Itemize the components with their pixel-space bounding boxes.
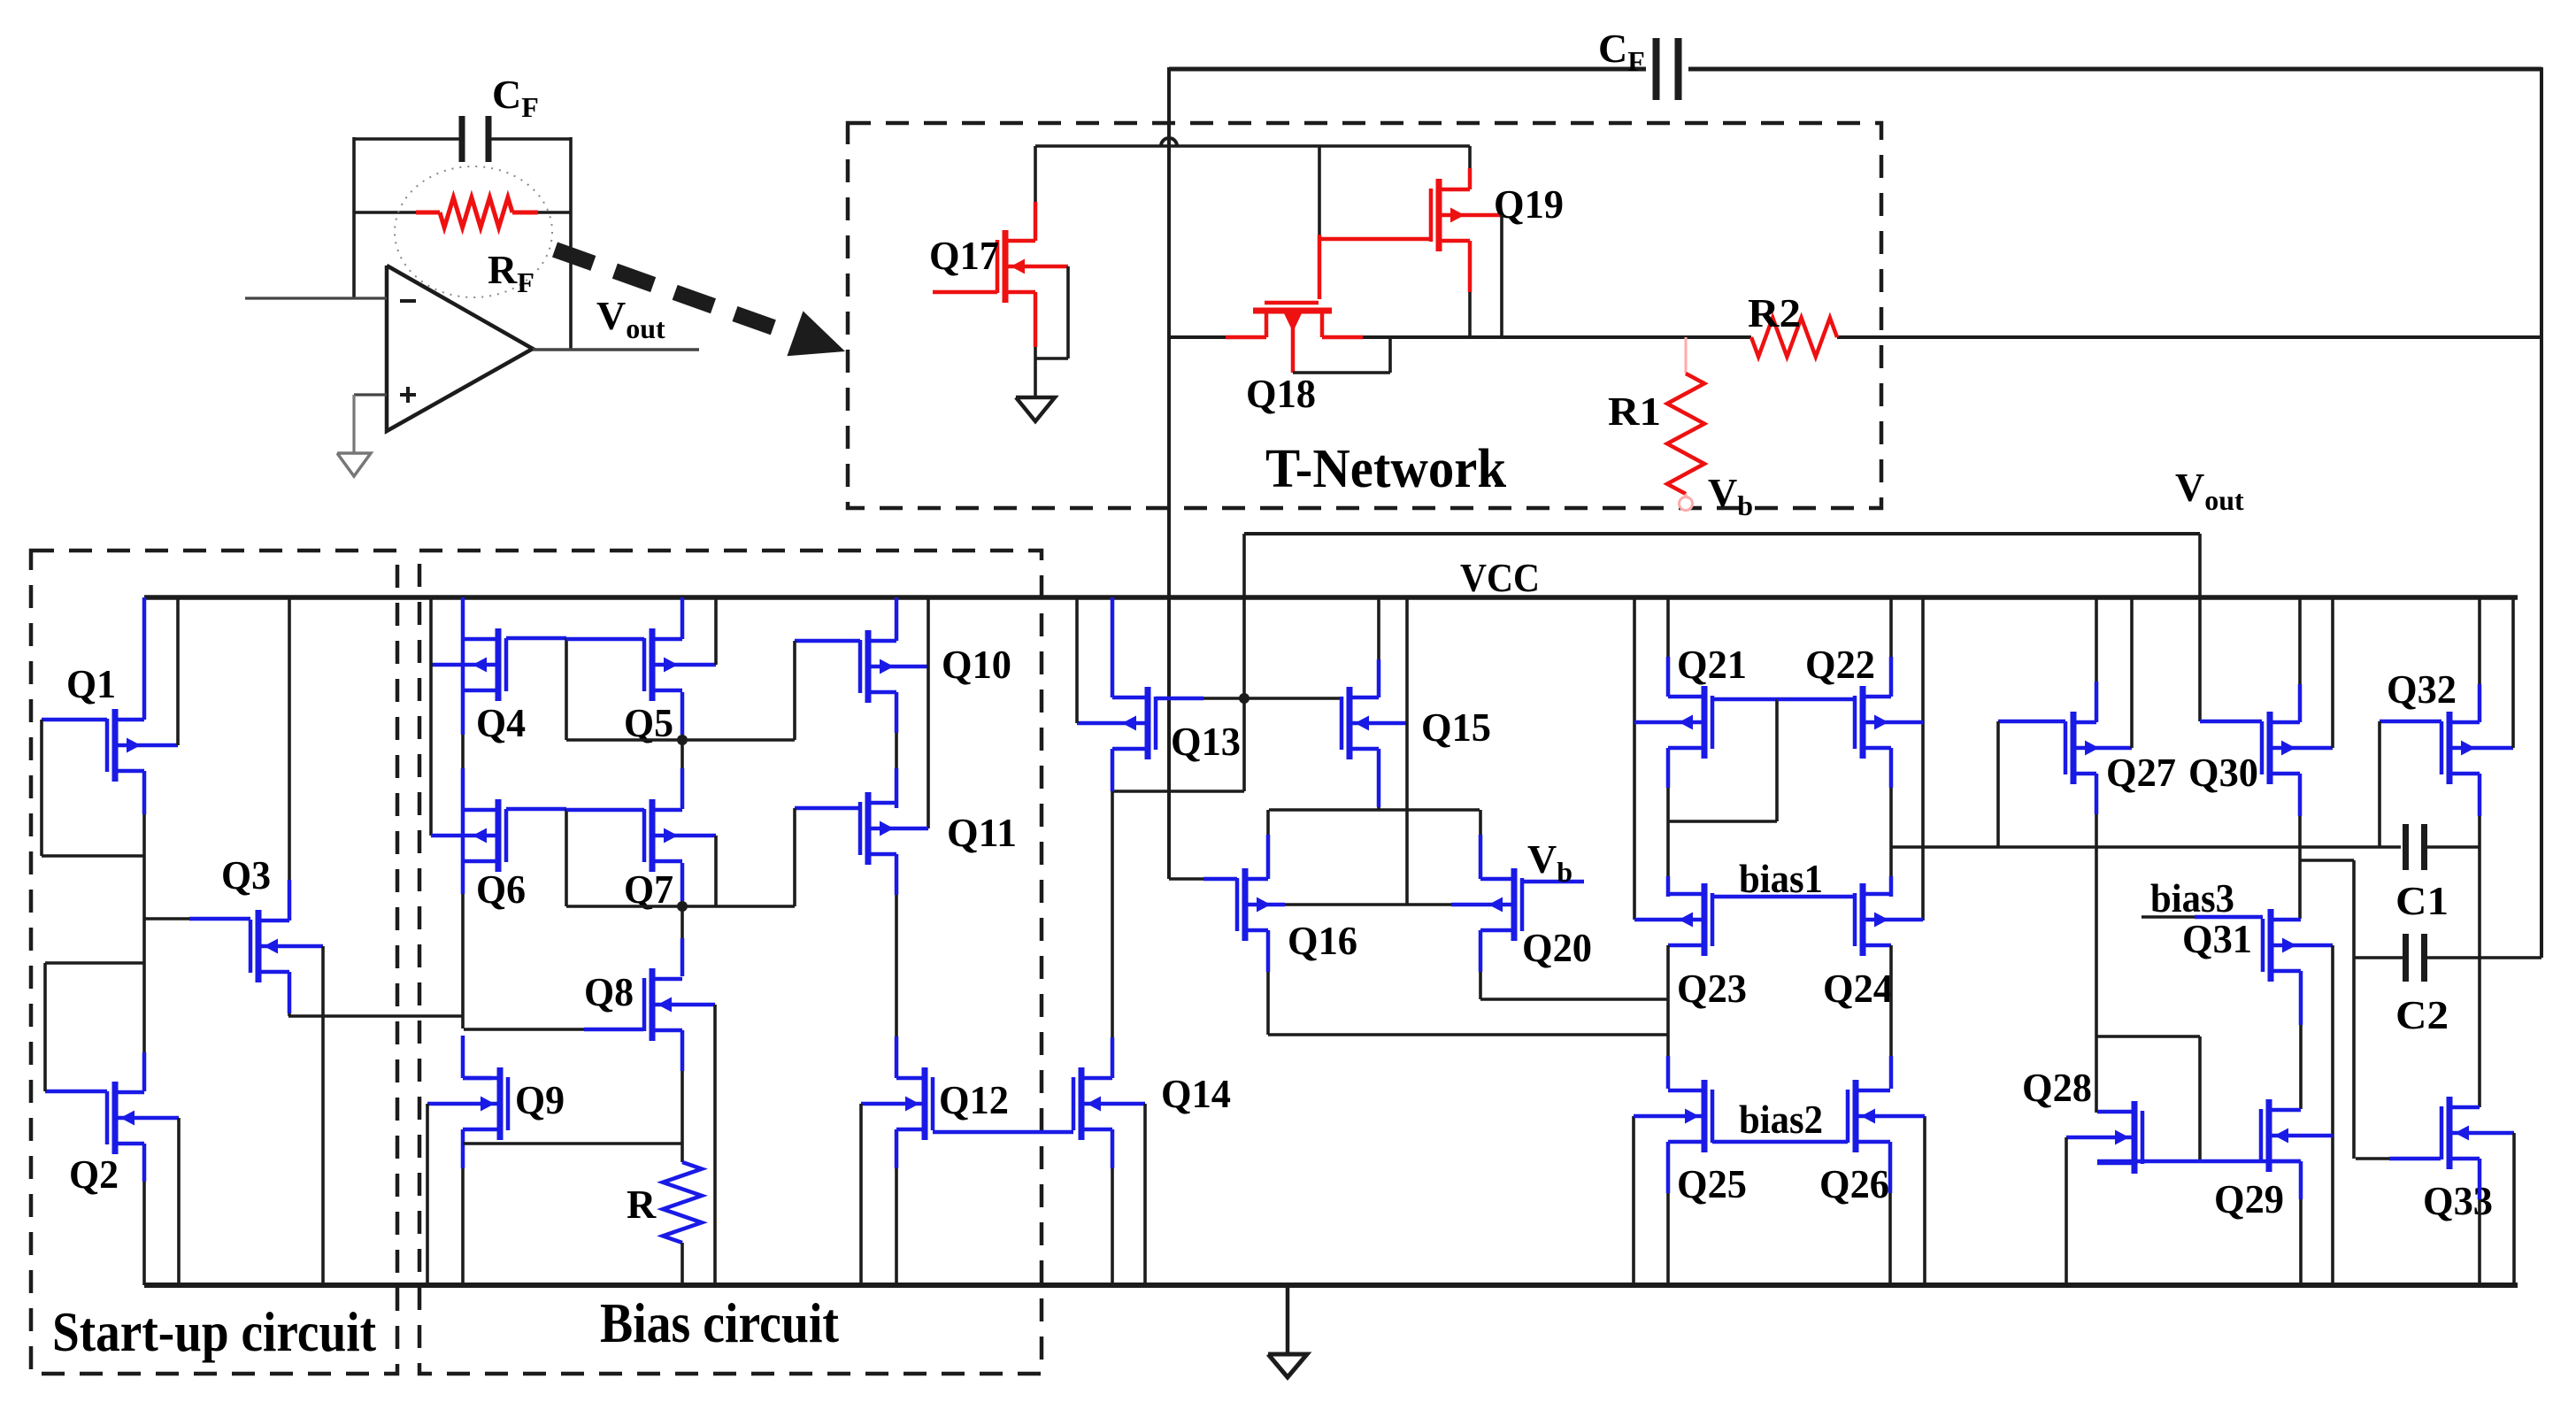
label Q10	[942, 642, 1011, 687]
wire Q9 bulk down	[426, 1104, 429, 1285]
wire C2 right lead	[2425, 956, 2541, 959]
wire Q2 source down	[142, 1144, 147, 1285]
transistor Q23	[1634, 883, 1712, 956]
transistor Q17	[997, 230, 1068, 303]
svg-text:R1: R1	[1608, 389, 1661, 434]
wire Q30 gate lead	[2200, 720, 2262, 724]
label Q20	[1522, 925, 1592, 970]
label Q25	[1677, 1161, 1747, 1206]
node dot row1	[677, 735, 688, 745]
wire Q32 drain up	[2478, 597, 2482, 722]
wire right bulk post upper	[1921, 597, 1925, 921]
wire Q21 drain up	[1666, 597, 1671, 697]
wire Q21Q22 gate post	[1668, 699, 1777, 821]
wire Q21 gate lead	[1712, 697, 1777, 702]
wire gate row1	[566, 738, 795, 742]
wire op-amp output Vout	[533, 348, 699, 350]
label Q18	[1246, 371, 1316, 416]
svg-text:Q8: Q8	[584, 969, 634, 1014]
svg-text:Q25: Q25	[1677, 1161, 1747, 1206]
label Q23	[1677, 966, 1747, 1011]
svg-text:Q4: Q4	[476, 700, 526, 745]
transistor Q21	[1634, 686, 1712, 759]
resistor R2	[1751, 318, 1837, 357]
label Q29	[2214, 1176, 2284, 1221]
wire Q31 source down	[2299, 971, 2303, 1109]
wire Q17 drain up	[1034, 146, 1038, 241]
wire Q8 source down	[681, 1030, 685, 1162]
wire Q20 source down	[1479, 930, 1483, 999]
label Q19	[1494, 181, 1564, 227]
label Q4	[476, 700, 526, 745]
label Q1	[66, 661, 116, 706]
resistor R	[663, 1162, 702, 1243]
terminal Vb (R1)	[1680, 497, 1693, 511]
transistor Q24	[1855, 883, 1923, 956]
transistor Q25	[1634, 1080, 1712, 1152]
wire Q16 tail	[1268, 1033, 1667, 1036]
wire Q7 gate lead	[566, 808, 644, 813]
transistor Q15	[1342, 687, 1407, 759]
wire VCC rail	[144, 595, 2518, 600]
transistor Q30	[2262, 712, 2333, 784]
transistor Q3	[250, 910, 323, 982]
svg-text:Q20: Q20	[1522, 925, 1592, 970]
wire Q4 gate lead	[506, 636, 566, 641]
wire Q10 gate lead	[795, 639, 860, 643]
label C1	[2395, 878, 2449, 923]
wire Q21 source chain	[1666, 748, 1671, 897]
wire Q12 bulk down	[859, 1104, 863, 1285]
label Q11	[947, 810, 1017, 855]
wire Q27 bulk up	[2130, 597, 2134, 748]
svg-text:Q9: Q9	[515, 1077, 565, 1122]
label Q22	[1805, 642, 1875, 687]
label VCC	[1460, 555, 1540, 600]
label Q9	[515, 1077, 565, 1122]
label Q5	[624, 700, 673, 745]
transistor Q1	[107, 709, 178, 782]
svg-text:Q10: Q10	[942, 642, 1011, 687]
transistor Q13	[1077, 687, 1156, 759]
wire Q10 source chain	[895, 692, 899, 808]
wire Q1 drain to VCC	[142, 597, 147, 720]
svg-text:C1: C1	[2395, 878, 2449, 923]
wire Q32 gate post	[2378, 721, 2381, 847]
resistor RF (red, circled)	[354, 197, 571, 227]
label R	[627, 1182, 657, 1227]
label RF	[488, 247, 534, 298]
op-amp plus sign	[400, 387, 416, 403]
capacitor C1	[2406, 824, 2425, 870]
transistor Q20	[1451, 868, 1522, 941]
wire Q27 drain up	[2095, 597, 2099, 722]
wire T-net out rail	[1837, 335, 2541, 339]
wire Q8 bulk down	[713, 1005, 717, 1285]
svg-text:Q1: Q1	[66, 661, 116, 706]
wire non-inverting input	[354, 393, 387, 396]
svg-text:bias2: bias2	[1739, 1098, 1823, 1142]
label Q32	[2387, 666, 2457, 712]
transistor Q6	[431, 799, 506, 872]
wire ground stub	[1286, 1288, 1290, 1354]
wire Q30 source column	[2298, 774, 2303, 919]
transistor Q7	[644, 799, 716, 872]
svg-text:Q12: Q12	[939, 1077, 1009, 1122]
wire C2 left lead	[2354, 956, 2405, 959]
svg-text:Q2: Q2	[69, 1152, 119, 1197]
label CF	[492, 72, 539, 123]
wire top feedback (left segment)	[1169, 67, 1646, 72]
label T-Network	[1265, 439, 1506, 499]
capacitor CF (op-amp feedback)	[462, 116, 488, 162]
transistor Q26	[1848, 1080, 1925, 1152]
wire Q30 drain up	[2298, 597, 2303, 722]
transistor Q27	[2065, 712, 2132, 784]
wire Q19 gate lead	[1319, 237, 1430, 242]
svg-text:Q24: Q24	[1823, 966, 1893, 1011]
wire shared bulk line	[1285, 903, 1451, 906]
svg-text:Bias circuit: Bias circuit	[600, 1291, 840, 1354]
svg-text:Q27: Q27	[2106, 750, 2176, 795]
svg-text:R: R	[627, 1182, 657, 1227]
wire Q28 source link	[2097, 1159, 2300, 1164]
wire Q23 source chain	[1666, 945, 1670, 1089]
wire Q9 source to R	[463, 1142, 682, 1145]
wire Q17 top link	[1035, 144, 1470, 148]
wire top feedback (right segment)	[1688, 67, 2541, 72]
transistor Q10	[860, 630, 928, 703]
capacitor C2	[2406, 934, 2425, 982]
svg-text:Q3: Q3	[221, 852, 271, 897]
wire Q9 source down	[461, 1129, 465, 1285]
label bias3	[2150, 876, 2234, 921]
wire Q1 bulk tie up	[176, 597, 180, 745]
wire C1 right lead	[2425, 845, 2480, 849]
wire Q8 gate lead	[464, 1028, 643, 1031]
wire bias1 gate link	[1712, 895, 1855, 899]
wire Vb to Q13 source col	[1112, 790, 1244, 793]
label Q7	[624, 867, 673, 912]
label Q3	[221, 852, 271, 897]
label Q6	[476, 867, 526, 912]
wire Q11 gate lead	[795, 806, 860, 811]
wire bias3 lead	[2142, 915, 2263, 919]
label Start-up circuit	[52, 1300, 377, 1363]
svg-text:Q30: Q30	[2188, 750, 2258, 795]
op-amp minus sign	[400, 299, 416, 303]
label Q16	[1288, 918, 1357, 963]
wire Q4/Q6 bulk tie	[429, 597, 433, 836]
wire Q26 source down	[1888, 1142, 1893, 1285]
wire Q18 gate vertical	[1318, 147, 1321, 299]
svg-text:Q28: Q28	[2022, 1065, 2092, 1110]
wire Q20 tail	[1480, 998, 1667, 1001]
label Vout (right)	[2175, 465, 2244, 516]
label Q15	[1421, 705, 1491, 750]
transistor Q12	[861, 1067, 933, 1140]
svg-text:R2: R2	[1748, 290, 1801, 335]
dashed arrow to T-Network	[555, 250, 845, 356]
wire Q3 gate link	[144, 917, 250, 921]
wire Q16 gate lead	[1169, 877, 1237, 881]
label Q26	[1819, 1161, 1889, 1206]
wire Q7 bulk down	[714, 836, 718, 906]
label Q27	[2106, 750, 2176, 795]
wire Q30 bulk up	[2331, 597, 2334, 748]
label Q21	[1677, 642, 1747, 687]
svg-text:Q6: Q6	[476, 867, 526, 912]
wire Q16 drain up	[1266, 810, 1271, 879]
wire Q13 drain up	[1111, 597, 1115, 697]
wire feedback box left	[352, 137, 356, 298]
wire Q27 gate lead	[1998, 720, 2065, 724]
wire Q11 gate post	[793, 808, 796, 906]
transistor Q32	[2441, 712, 2513, 784]
label Vout (op-amp)	[596, 293, 665, 344]
wire Q15 drain up	[1377, 597, 1381, 697]
wire Q1 gate loop	[42, 720, 144, 856]
svg-text:Q22: Q22	[1805, 642, 1875, 687]
wire Q3 drain up	[288, 597, 292, 921]
T-Network dashed box	[848, 123, 1881, 508]
wire Q27 source column	[2095, 774, 2099, 1113]
node dot row2	[677, 901, 688, 912]
wire Q15 source down	[1377, 749, 1381, 810]
wire Q5 drain up	[681, 597, 685, 639]
wire Q31 bulk down	[2331, 945, 2334, 1285]
svg-text:Q18: Q18	[1246, 371, 1316, 416]
wire Q32 bulk up	[2511, 597, 2515, 748]
wire Q6 gate lead	[506, 807, 566, 812]
wire Vb bias line	[1244, 532, 2200, 535]
wire feedback box top	[354, 137, 571, 141]
label Q30	[2188, 750, 2258, 795]
wire inverting input	[245, 297, 387, 299]
wire R bottom	[681, 1243, 684, 1285]
wire Q11 source chain	[895, 854, 899, 1078]
label Q8	[584, 969, 634, 1014]
svg-text:VCC: VCC	[1460, 555, 1540, 600]
label bias2	[1739, 1098, 1823, 1142]
wire Vb down to Q30 gate	[2198, 534, 2202, 721]
wire Q10 drain up	[895, 597, 899, 641]
wire bias2 gate link	[1712, 1140, 1848, 1144]
wire Q13 source chain	[1111, 749, 1115, 1078]
label Q24	[1823, 966, 1893, 1011]
wire Q25 source down	[1666, 1142, 1671, 1285]
label bias1	[1739, 857, 1823, 901]
op-amp U1	[387, 266, 533, 431]
wire Q28 drain branch	[2096, 1036, 2200, 1161]
wire Q32 gate lead	[2380, 720, 2441, 724]
wire left bulk post upper	[1633, 597, 1636, 920]
wire ground rail	[144, 1283, 2518, 1288]
wire Q28 bulk down	[2065, 1137, 2068, 1285]
resistor R1	[1667, 337, 1704, 497]
wire Q19 drain up	[1468, 146, 1473, 189]
wire Q9 gate-drain lead	[463, 1076, 492, 1081]
wire cascode node line	[1891, 845, 2401, 849]
transistor Q11	[860, 792, 928, 865]
transistor Q16	[1237, 868, 1285, 941]
transistor Q5	[644, 628, 716, 701]
wire Q2 bulk down	[177, 1118, 181, 1285]
svg-text:Q29: Q29	[2214, 1176, 2284, 1221]
label Q13	[1171, 719, 1241, 764]
label Q2	[69, 1152, 119, 1197]
transistor Q28	[2066, 1101, 2142, 1174]
wire Q33 source down	[2478, 1159, 2482, 1285]
svg-text:C2: C2	[2395, 992, 2449, 1037]
transistor Q18 (rotated)	[1253, 303, 1332, 373]
wire Q20 gate lead Vb	[1522, 880, 1584, 884]
wire C2 branch step	[2300, 860, 2354, 1159]
wire Q10 gate post	[793, 641, 796, 740]
wire right bulk post lower	[1923, 1116, 1926, 1285]
wire Q14 source down	[1111, 1129, 1115, 1285]
wire bias column x523	[461, 597, 465, 1078]
label Q31	[2182, 916, 2252, 961]
wire T-net mid rail	[1322, 335, 1751, 340]
wire Q2 gate loop	[45, 963, 144, 1091]
wire hop junction	[1161, 138, 1177, 146]
wire main input vertical	[1167, 67, 1171, 879]
capacitor CF (top feedback)	[1657, 38, 1679, 100]
wire Q3 bulk down	[321, 946, 325, 1285]
label CF (top)	[1598, 26, 1645, 77]
label C2	[2395, 992, 2449, 1037]
dotted ellipse around RF	[395, 166, 552, 297]
svg-text:Q23: Q23	[1677, 966, 1747, 1011]
svg-text:Q21: Q21	[1677, 642, 1747, 687]
wire Q13 gate link	[1156, 697, 1340, 701]
svg-text:Q32: Q32	[2387, 666, 2457, 712]
wire Q5 bulk up	[714, 597, 718, 665]
transistor Q14	[1073, 1067, 1145, 1140]
node dot (Q13/Q15 gates)	[1239, 693, 1250, 704]
svg-text:Q17: Q17	[929, 233, 999, 278]
Start-up circuit dashed box	[31, 551, 397, 1374]
wire Q33 gate link	[2356, 1157, 2441, 1160]
wire Q10Q11 bulk tie	[927, 597, 930, 828]
label Bias circuit	[600, 1291, 840, 1354]
label Q14	[1161, 1071, 1231, 1116]
wire left bulk post lower	[1632, 1116, 1635, 1285]
transistor Q31	[2263, 909, 2333, 982]
wire Q20 drain up	[1479, 810, 1483, 879]
transistor Q29	[2261, 1099, 2333, 1172]
Bias circuit dashed box	[419, 551, 1042, 1374]
transistor Q8	[644, 968, 715, 1041]
wire Q1 source chain	[142, 771, 147, 1091]
label Q28	[2022, 1065, 2092, 1110]
label Q12	[939, 1077, 1009, 1122]
transistor Q2	[107, 1082, 179, 1154]
wire Q12-Q14 gate link	[933, 1130, 1073, 1135]
transistor Q22	[1855, 686, 1923, 759]
ground (main)	[1268, 1354, 1307, 1377]
wire Vb down to gates	[1242, 534, 1246, 791]
svg-text:Q14: Q14	[1161, 1071, 1231, 1116]
wire Q18 bulk loop	[1293, 337, 1390, 373]
wire Q22 source chain	[1889, 748, 1894, 897]
ground (op-amp)	[337, 453, 371, 476]
transistor Q4	[431, 628, 506, 701]
wire Q32 source column	[2478, 774, 2482, 1107]
svg-text:Q13: Q13	[1171, 719, 1241, 764]
wire Q17 source down	[1034, 292, 1038, 397]
wire Q29 source down	[2299, 1161, 2303, 1285]
svg-text:Q31: Q31	[2182, 916, 2252, 961]
wire Q17 gate lead	[933, 290, 997, 295]
wire Q3 source down	[288, 972, 292, 1016]
ground (Q17)	[1016, 397, 1055, 421]
svg-text:Q11: Q11	[947, 810, 1017, 855]
wire Q14 bulk down	[1143, 1104, 1147, 1285]
transistor Q33	[2441, 1097, 2514, 1169]
wire Q6Q7 gate post	[565, 809, 568, 906]
svg-text:Start-up circuit: Start-up circuit	[52, 1300, 377, 1363]
label R2	[1748, 290, 1801, 335]
label Q33	[2423, 1178, 2493, 1223]
wire T-net input rail	[1169, 335, 1266, 339]
wire to ground (op-amp +)	[352, 395, 355, 453]
wire Q19 source down	[1468, 241, 1473, 337]
wire Q5 source chain	[681, 692, 685, 809]
wire Vout right vertical	[2540, 67, 2543, 958]
wire Q19 bulk down	[1500, 215, 1503, 337]
wire Q15 bulk/VCC post	[1405, 597, 1409, 905]
svg-text:Q26: Q26	[1819, 1161, 1889, 1206]
wire Q7 source chain	[681, 863, 685, 976]
wire Q27 gate post	[1996, 721, 2000, 847]
wire Q5 gate lead	[566, 637, 644, 642]
wire Q33 bulk down	[2512, 1133, 2516, 1285]
wire feedback box right	[569, 137, 573, 350]
svg-text:Q33: Q33	[2423, 1178, 2493, 1223]
svg-text:bias1: bias1	[1739, 857, 1823, 901]
svg-text:Q16: Q16	[1288, 918, 1357, 963]
label Vb (main)	[1527, 836, 1573, 888]
wire Q12 source down	[895, 1129, 899, 1285]
wire Q22 gate lead	[1777, 697, 1855, 702]
svg-text:Q15: Q15	[1421, 705, 1491, 750]
wire gate row2	[566, 905, 795, 908]
label Vb (T-net)	[1708, 470, 1753, 521]
wire Q13 bulk up	[1075, 597, 1079, 723]
wire Q16 source down	[1266, 930, 1271, 1035]
svg-text:Q19: Q19	[1494, 181, 1564, 227]
label Q17	[929, 233, 999, 278]
wire Q17 bulk tie	[1035, 266, 1068, 358]
wire Q4Q5 gate post	[565, 638, 568, 740]
wire diff box top	[1269, 808, 1480, 812]
svg-text:bias3: bias3	[2150, 876, 2234, 921]
wire node A link	[288, 1014, 464, 1018]
transistor Q9	[427, 1067, 508, 1140]
wire Q24 source chain	[1889, 945, 1893, 1089]
label R1	[1608, 389, 1661, 434]
wire Q22 drain up	[1889, 597, 1894, 697]
transistor Q19	[1431, 179, 1502, 251]
svg-text:T-Network: T-Network	[1265, 439, 1506, 499]
